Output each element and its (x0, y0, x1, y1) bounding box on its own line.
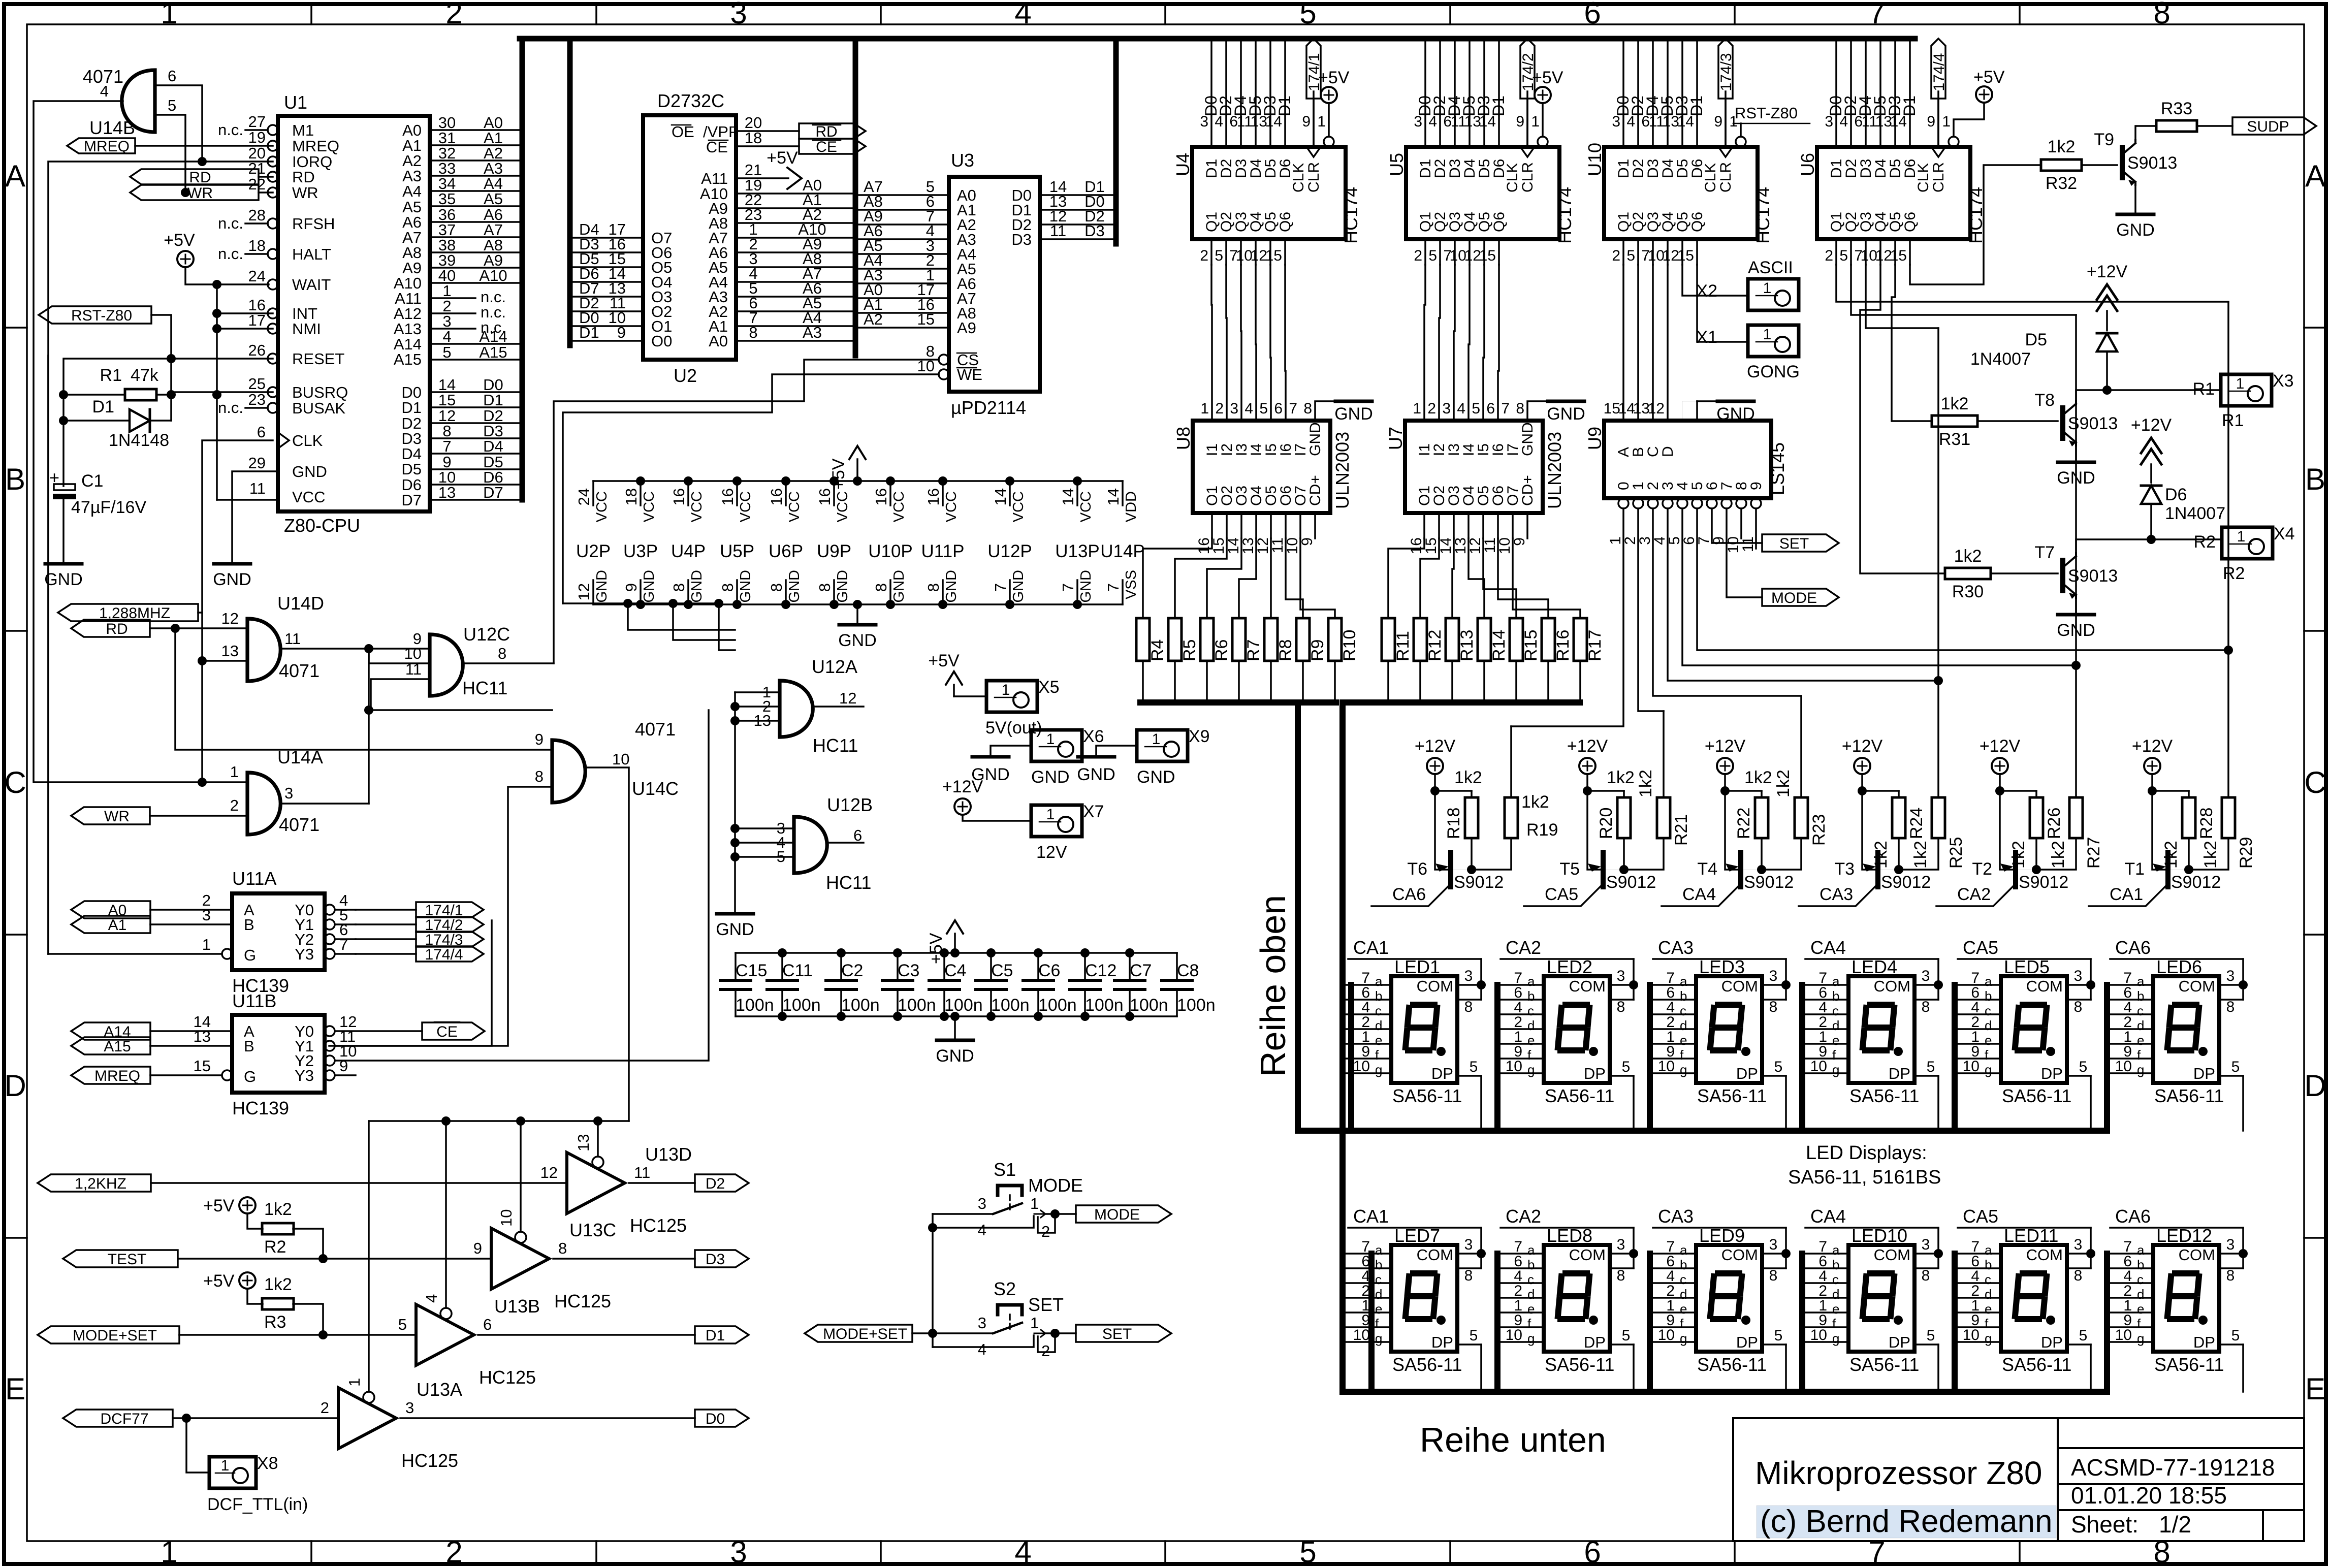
svg-text:D: D (4, 1069, 26, 1103)
net flag 174/4 vertical (1931, 39, 1945, 99)
wire MREQ flag to U1 (135, 145, 273, 147)
svg-text:29: 29 (248, 454, 266, 472)
svg-text:3: 3 (405, 1399, 414, 1417)
net flags 174/1-174/4 (356, 909, 416, 911)
svg-text:VCC: VCC (891, 491, 907, 522)
LED12 segment pin 7 a (2108, 1253, 2153, 1255)
LED2 segment pin 9 f (1498, 1058, 1544, 1060)
transistor T4 S9012 (1738, 852, 1743, 887)
IC U10 HC174 (1604, 147, 1758, 239)
svg-text:X3: X3 (2273, 371, 2294, 391)
svg-text:U8: U8 (1173, 427, 1194, 450)
svg-text:U12A: U12A (812, 656, 857, 677)
svg-text:R6: R6 (1212, 639, 1231, 661)
svg-text:174/3: 174/3 (1718, 53, 1735, 91)
svg-text:GND: GND (1077, 765, 1115, 784)
svg-text:5: 5 (1626, 247, 1635, 264)
net flag SET at S2 (1076, 1325, 1171, 1342)
U1 pin 19 MREQ (268, 141, 278, 151)
svg-text:CA3: CA3 (1658, 1206, 1694, 1227)
svg-text:RESET: RESET (292, 350, 344, 368)
svg-text:100n: 100n (1130, 996, 1168, 1015)
svg-text:VCC: VCC (1010, 491, 1027, 522)
svg-text:9: 9 (1511, 537, 1528, 546)
svg-text:GND: GND (1031, 767, 1070, 787)
svg-text:27: 27 (248, 113, 266, 131)
wire collector T2 to CA2 (1936, 884, 2016, 906)
net flag SUDP (2232, 117, 2316, 135)
svg-text:A2: A2 (864, 310, 883, 328)
svg-text:DP: DP (1584, 1333, 1606, 1351)
svg-text:Y3: Y3 (295, 945, 314, 963)
svg-text:6: 6 (168, 67, 176, 85)
wire U13B out to D1 (478, 1334, 695, 1336)
wire U13A OE drop (368, 1121, 370, 1392)
svg-text:C: C (2304, 765, 2326, 799)
capacitor C11 100n (767, 979, 797, 982)
svg-text:GND: GND (835, 570, 851, 602)
wire T9 collector (2135, 126, 2156, 140)
svg-text:DP: DP (2193, 1065, 2215, 1082)
svg-text:LS145: LS145 (1767, 442, 1788, 495)
resistor R31 1k2 (1932, 415, 1977, 427)
svg-text:16: 16 (768, 488, 785, 505)
svg-text:WR: WR (187, 185, 213, 202)
svg-text:R8: R8 (1276, 639, 1295, 661)
svg-text:1: 1 (161, 1535, 177, 1568)
svg-text:d: d (2137, 1287, 2144, 1302)
U6 CLK pin 9 (1931, 147, 1945, 157)
LED display LED1 SA56-11 (1391, 976, 1457, 1083)
svg-text:8: 8 (2226, 1267, 2235, 1284)
svg-text:+12V: +12V (1842, 737, 1883, 756)
svg-text:MREQ: MREQ (292, 137, 339, 155)
svg-text:A9: A9 (957, 319, 976, 337)
wire U4 Q staircase to U8 (1256, 265, 1256, 421)
svg-text:E: E (2305, 1372, 2325, 1406)
svg-text:C: C (4, 765, 26, 799)
IC U5 HC174 (1406, 147, 1559, 239)
svg-text:CA2: CA2 (1506, 937, 1541, 958)
svg-text:CD+: CD+ (1307, 475, 1324, 506)
svg-text:U10P: U10P (868, 541, 913, 561)
svg-text:ULN2003: ULN2003 (1544, 432, 1565, 509)
svg-text:2: 2 (1215, 400, 1224, 417)
wire T7 collector to X4 (2076, 539, 2222, 553)
svg-text:SET: SET (1779, 535, 1809, 552)
svg-text:6: 6 (1486, 400, 1495, 417)
svg-text:CLK: CLK (292, 432, 323, 450)
svg-text:8: 8 (1617, 999, 1625, 1015)
svg-text:DP: DP (1736, 1065, 1758, 1082)
svg-text:n.c.: n.c. (218, 214, 243, 232)
power pins U2P (592, 481, 594, 505)
svg-text:U11P: U11P (921, 541, 965, 561)
svg-text:WR: WR (104, 808, 130, 825)
net flag CE (422, 1022, 485, 1040)
svg-text:f: f (1527, 1047, 1531, 1063)
svg-text:1: 1 (1942, 113, 1951, 130)
wire T7 emitter (2075, 598, 2077, 614)
svg-text:B: B (244, 916, 254, 934)
svg-text:VCC: VCC (738, 491, 754, 522)
wire WR flag to U1 (259, 191, 273, 194)
svg-text:GND: GND (1307, 422, 1324, 456)
U1 pin 21 RD (268, 172, 278, 182)
svg-text:RST-Z80: RST-Z80 (1735, 104, 1798, 122)
svg-text:MREQ: MREQ (84, 138, 130, 155)
LED9 segment pin 7 a (1650, 1253, 1696, 1255)
svg-text:U13B: U13B (494, 1296, 540, 1317)
svg-text:R33: R33 (2161, 99, 2192, 118)
wire U9 out 3 to T3 base resistor (1668, 508, 1938, 681)
svg-text:8: 8 (1617, 1267, 1625, 1284)
wire U11B Y3 stub (335, 1074, 356, 1076)
svg-text:e: e (2137, 1033, 2144, 1048)
svg-text:B: B (244, 1037, 254, 1055)
svg-text:GND: GND (2116, 220, 2155, 240)
svg-text:U7: U7 (1385, 427, 1406, 450)
svg-text:1N4007: 1N4007 (2165, 504, 2225, 523)
svg-text:+12V: +12V (1980, 737, 2021, 756)
power +12V at D6 (2141, 438, 2161, 453)
svg-text:3: 3 (730, 0, 747, 30)
svg-text:15: 15 (1677, 247, 1694, 264)
svg-text:D5: D5 (401, 460, 422, 478)
svg-text:T3: T3 (1834, 859, 1855, 879)
transistor T2 S9012 (2013, 852, 2018, 887)
svg-text:+12V: +12V (1705, 737, 1746, 756)
net flag WR at U1 (130, 185, 259, 200)
svg-text:GND: GND (838, 631, 877, 650)
wire U9 to MODE flag (1727, 508, 1762, 597)
svg-text:D2: D2 (706, 1175, 725, 1192)
wire R21 drive (1663, 711, 1665, 797)
net flag RD at U2 (799, 123, 866, 139)
ground at power block (856, 604, 858, 624)
wire U9 out 5 to T1 base resistor (1697, 508, 2228, 650)
svg-text:19: 19 (248, 129, 266, 146)
svg-text:g: g (1527, 1062, 1535, 1077)
svg-text:11: 11 (249, 479, 266, 497)
wire U6 Q1 to T1 drive column (1836, 265, 2228, 302)
svg-text:9: 9 (622, 583, 640, 592)
wire U2 A2 to address bus (736, 310, 855, 312)
LED7 segment pin 7 a (1346, 1253, 1391, 1255)
wire CLK down to U14A pin1 row (201, 613, 203, 782)
wire base node T6 (1471, 838, 1473, 870)
LED2 segment pin 6 b (1498, 999, 1544, 1001)
net flag MODE+SET at S2 (805, 1325, 912, 1342)
svg-text:12: 12 (575, 583, 593, 600)
svg-text:D0: D0 (706, 1411, 725, 1427)
svg-text:7: 7 (992, 583, 1009, 592)
svg-text:4: 4 (1014, 1535, 1031, 1568)
svg-text:8: 8 (719, 583, 737, 592)
title block (1733, 1418, 2304, 1541)
svg-text:BUSAK: BUSAK (292, 399, 345, 417)
svg-text:10: 10 (2115, 1327, 2132, 1343)
svg-text:8: 8 (2074, 999, 2083, 1015)
svg-text:100n: 100n (841, 996, 880, 1015)
svg-text:c: c (1832, 1272, 1839, 1287)
connector X4 (2222, 527, 2273, 559)
wire base node T1 (2188, 838, 2190, 870)
svg-text:T6: T6 (1407, 859, 1427, 879)
svg-text:A: A (2305, 159, 2325, 193)
svg-text:c: c (1680, 1272, 1686, 1287)
svg-text:DP: DP (2041, 1065, 2063, 1082)
power pins U6P (785, 481, 787, 505)
ground at T8 (2058, 461, 2094, 464)
LED5 segment pin 7 a (1955, 984, 2001, 986)
svg-text:MODE: MODE (1028, 1175, 1083, 1196)
svg-text:f: f (1527, 1316, 1531, 1331)
svg-text:18: 18 (248, 237, 266, 254)
svg-text:COM: COM (1874, 1246, 1910, 1264)
svg-text:S2: S2 (994, 1278, 1016, 1299)
svg-text:16: 16 (924, 488, 942, 505)
svg-text:CLK: CLK (1504, 163, 1521, 193)
U1 pin 17 NMI (268, 324, 278, 334)
LED10 segment pin 6 b (1803, 1267, 1848, 1269)
svg-text:GND: GND (891, 570, 907, 602)
bus vertical right of U1 (520, 39, 525, 500)
svg-text:9: 9 (1748, 482, 1765, 490)
ground at T9 (2117, 213, 2154, 216)
svg-text:1: 1 (1030, 1195, 1039, 1212)
svg-text:4: 4 (442, 328, 451, 345)
svg-text:8: 8 (498, 645, 506, 662)
resistor R13 (1446, 618, 1459, 661)
wire U2 A0 to address bus (736, 340, 855, 342)
svg-text:COM: COM (2026, 977, 2063, 995)
resistor R29 1k2 (2222, 797, 2235, 838)
svg-text:X1: X1 (1696, 328, 1717, 347)
svg-text:MODE: MODE (1094, 1206, 1140, 1223)
svg-text:2: 2 (1200, 247, 1208, 264)
svg-text:g: g (1375, 1331, 1382, 1346)
svg-text:100n: 100n (1085, 996, 1124, 1015)
svg-text:c: c (2137, 1003, 2144, 1018)
svg-text:n.c.: n.c. (218, 399, 243, 417)
bus vertical between U2 and U3 (853, 39, 858, 356)
svg-text:SET: SET (1028, 1294, 1064, 1315)
LED2 segment pin 10 g (1498, 1072, 1544, 1074)
pullup R3 1k2 (239, 1272, 256, 1289)
svg-text:D2732C: D2732C (657, 90, 724, 111)
svg-text:1: 1 (345, 1378, 363, 1387)
svg-text:5: 5 (1428, 247, 1437, 264)
net flag RD at U1 (130, 169, 259, 184)
svg-text:d: d (1680, 1287, 1687, 1302)
svg-text:a: a (1832, 974, 1840, 989)
svg-text:CA2: CA2 (1506, 1206, 1541, 1227)
svg-text:1k2: 1k2 (1941, 394, 1969, 413)
gate U14B 4071 OR (122, 70, 155, 132)
LED6 segment pin 6 b (2108, 999, 2153, 1001)
copyright Bernd Redemann (1757, 1506, 2056, 1538)
svg-text:R5: R5 (1180, 639, 1199, 661)
svg-text:1/2: 1/2 (2159, 1511, 2191, 1538)
svg-text:e: e (1680, 1033, 1687, 1048)
svg-text:3: 3 (1769, 968, 1778, 984)
svg-text:8: 8 (1464, 999, 1473, 1015)
wire U9 out 2 to T4 base resistor (1653, 508, 1801, 696)
svg-text:GND: GND (1010, 570, 1027, 602)
svg-text:b: b (1527, 1257, 1535, 1272)
LED5 segment pin 2 d (1955, 1028, 2001, 1030)
svg-text:4: 4 (978, 1221, 986, 1239)
buffer U13C HC125 (491, 1228, 549, 1289)
svg-text:12V: 12V (1036, 843, 1067, 862)
wire U5 Q staircase to U7 (1498, 265, 1499, 421)
svg-text:R14: R14 (1489, 630, 1509, 661)
svg-text:1: 1 (1046, 731, 1055, 748)
svg-text:SA56-11: SA56-11 (1545, 1354, 1614, 1375)
svg-text:D1: D1 (483, 391, 503, 409)
svg-text:C5: C5 (991, 961, 1013, 980)
wire riser to S1 (932, 1214, 934, 1347)
svg-text:01.01.20 18:55: 01.01.20 18:55 (2071, 1482, 2227, 1509)
svg-text:CE: CE (816, 139, 837, 155)
svg-text:CA5: CA5 (1963, 1206, 1998, 1227)
IC U2 D2732C EPROM (643, 115, 736, 360)
svg-text:9: 9 (1516, 113, 1524, 130)
LED2 segment pin 1 e (1498, 1043, 1544, 1045)
svg-text:DP: DP (1431, 1065, 1453, 1082)
LED11 segment pin 7 a (1955, 1253, 2001, 1255)
net flag D2 (695, 1174, 749, 1192)
svg-text:4: 4 (1244, 400, 1253, 417)
IC U11A HC139 (232, 893, 325, 970)
svg-text:D4: D4 (483, 437, 503, 455)
svg-text:U13A: U13A (417, 1379, 462, 1400)
svg-text:R12: R12 (1425, 630, 1445, 661)
svg-text:COM: COM (2179, 977, 2215, 995)
svg-text:1: 1 (1152, 731, 1161, 748)
svg-text:X6: X6 (1083, 727, 1104, 746)
svg-text:c: c (1527, 1272, 1534, 1287)
capacitor C6 100n (1023, 979, 1054, 982)
wire U13A out to D0 (400, 1417, 695, 1419)
wire +12V to T5 (1587, 774, 1601, 870)
wire MODE+SET to S2 (912, 1332, 993, 1334)
wire R23 drive (1800, 696, 1802, 797)
LED2 COM pins 3 8 (1610, 984, 1634, 986)
bus rails between top LEDs (1494, 985, 1501, 1131)
svg-text:4: 4 (100, 82, 109, 100)
wire base node T5 (1623, 838, 1625, 870)
svg-text:VSS: VSS (1123, 570, 1139, 599)
svg-text:U14P: U14P (1100, 541, 1145, 561)
svg-text:f: f (1985, 1316, 1989, 1331)
svg-text:CA3: CA3 (1658, 937, 1694, 958)
svg-text:6: 6 (257, 423, 266, 441)
wire U3 CS from U12C output (554, 360, 939, 663)
svg-text:12: 12 (221, 610, 239, 627)
svg-text:7: 7 (1868, 1535, 1885, 1568)
svg-text:f: f (2137, 1047, 2141, 1063)
LED12 COM pins 3 8 (2219, 1253, 2243, 1255)
power pins U10P (889, 481, 891, 505)
LED11 DP pin 5 (2067, 1343, 2091, 1346)
svg-text:+5V: +5V (1318, 68, 1350, 87)
connector X3 (2221, 374, 2272, 406)
svg-text:2: 2 (1427, 400, 1436, 417)
svg-text:a: a (1680, 974, 1687, 989)
LED9 COM pins 3 8 (1762, 1253, 1786, 1255)
svg-text:3: 3 (2226, 968, 2235, 984)
svg-text:g: g (2137, 1062, 2144, 1077)
svg-text:16: 16 (816, 488, 834, 505)
U1 pin 6 CLK (278, 432, 289, 449)
svg-text:S9013: S9013 (2068, 566, 2118, 586)
wire MODE+SET to U13B (179, 1334, 416, 1336)
transistor T7 S9013 (2060, 560, 2065, 591)
svg-text:GONG: GONG (1747, 362, 1800, 381)
svg-text:f: f (1832, 1316, 1836, 1331)
net flag MREQ at U11B (71, 1067, 150, 1084)
ground at C1 (45, 562, 82, 566)
svg-text:8: 8 (2226, 999, 2235, 1015)
svg-text:R18: R18 (1444, 808, 1463, 839)
resistor R4 (1136, 618, 1150, 661)
svg-text:15: 15 (1265, 247, 1282, 264)
svg-text:C12: C12 (1085, 961, 1116, 980)
power pins U14P (1122, 481, 1124, 505)
svg-text:T1: T1 (2124, 859, 2145, 879)
LED4 segment pin 6 b (1803, 999, 1848, 1001)
power pins U12P (1009, 481, 1011, 505)
LED3 segment pin 1 e (1650, 1043, 1696, 1045)
svg-text:b: b (1375, 988, 1382, 1004)
LED3 COM pins 3 8 (1762, 984, 1786, 986)
svg-text:S1: S1 (994, 1159, 1016, 1180)
svg-text:10: 10 (2115, 1058, 2132, 1075)
svg-text:R2: R2 (2194, 532, 2216, 552)
buffer U13A HC125 (338, 1388, 396, 1449)
svg-text:D1: D1 (1900, 95, 1919, 116)
LED display LED5 SA56-11 (2001, 976, 2067, 1083)
wire U1 GND pin (232, 471, 278, 562)
IC U6 HC174 (1817, 147, 1970, 239)
wire base node T2 (2035, 838, 2037, 870)
LED display LED12 SA56-11 (2153, 1245, 2219, 1352)
svg-text:g: g (1680, 1062, 1687, 1077)
svg-text:d: d (1680, 1018, 1687, 1033)
svg-text:X7: X7 (1083, 802, 1104, 821)
svg-text:+5V: +5V (927, 933, 946, 964)
svg-text:U6: U6 (1797, 153, 1818, 176)
svg-text:8: 8 (535, 767, 544, 785)
svg-text:1k2: 1k2 (1871, 841, 1891, 869)
LED10 segment pin 2 d (1803, 1297, 1848, 1299)
svg-text:12: 12 (540, 1164, 558, 1181)
wire U11B Y1 (335, 920, 492, 1046)
capacitor C8 100n (1162, 979, 1192, 982)
LED10 segment pin 7 a (1803, 1253, 1848, 1255)
svg-text:e: e (1985, 1033, 1992, 1048)
wire U2 pin 20 OE to RD flag (736, 130, 799, 132)
buffer U13D HC125 (567, 1153, 625, 1213)
LED8 segment pin 6 b (1498, 1267, 1544, 1269)
svg-text:C8: C8 (1177, 961, 1199, 980)
switch S1 MODE (998, 1186, 1022, 1195)
svg-text:R2: R2 (264, 1237, 286, 1257)
svg-text:Sheet:: Sheet: (2071, 1511, 2139, 1538)
resistor R32 1k2 (2041, 159, 2082, 171)
